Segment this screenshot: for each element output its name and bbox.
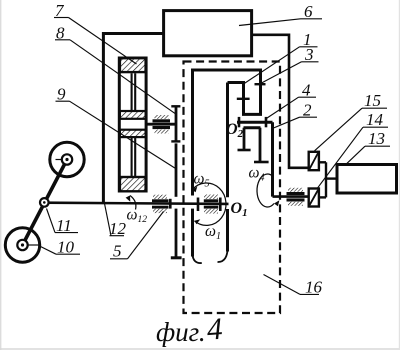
- svg-text:6: 6: [304, 2, 313, 21]
- svg-text:O1: O1: [231, 200, 248, 219]
- svg-text:ω1: ω1: [205, 223, 221, 242]
- svg-text:4: 4: [206, 311, 224, 347]
- svg-text:11: 11: [56, 216, 72, 235]
- svg-text:3: 3: [304, 45, 314, 64]
- svg-text:9: 9: [57, 85, 66, 104]
- svg-text:ω5: ω5: [194, 171, 210, 190]
- svg-text:16: 16: [305, 278, 323, 297]
- svg-text:10: 10: [57, 238, 75, 257]
- svg-text:ω12: ω12: [127, 207, 148, 226]
- svg-text:2: 2: [303, 101, 312, 120]
- svg-text:фиг.: фиг.: [156, 317, 206, 347]
- svg-text:4: 4: [302, 81, 311, 100]
- svg-text:12: 12: [109, 219, 127, 238]
- svg-text:O2: O2: [226, 121, 244, 140]
- svg-text:13: 13: [368, 129, 385, 148]
- svg-text:5: 5: [113, 242, 122, 261]
- svg-text:14: 14: [366, 110, 384, 129]
- svg-text:8: 8: [56, 24, 65, 43]
- svg-text:15: 15: [364, 91, 381, 110]
- svg-text:ω4: ω4: [249, 165, 265, 184]
